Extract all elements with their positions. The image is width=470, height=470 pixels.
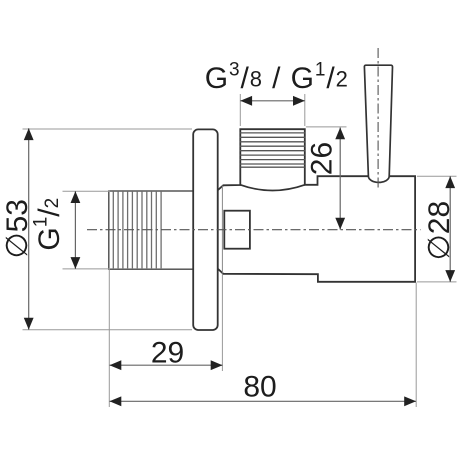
svg-text:80: 80 — [243, 371, 276, 404]
svg-text:∅28: ∅28 — [423, 201, 456, 261]
svg-text:29: 29 — [151, 337, 184, 370]
svg-text:26: 26 — [305, 142, 338, 175]
svg-text:∅53: ∅53 — [1, 199, 34, 259]
svg-text:G3/8 / G1/2: G3/8 / G1/2 — [205, 60, 349, 95]
